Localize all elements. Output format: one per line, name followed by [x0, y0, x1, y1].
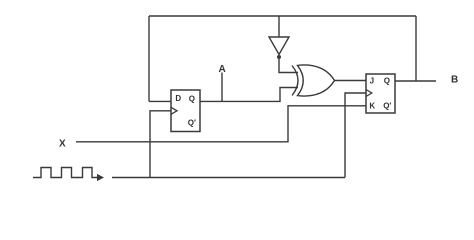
wire clock bus	[112, 177, 345, 179]
inverter triangle	[269, 37, 289, 55]
svg-text:J: J	[370, 77, 374, 86]
wire XOR output to J input	[334, 80, 366, 82]
svg-text:X: X	[59, 138, 66, 149]
wire top feedback horizontal	[149, 15, 416, 17]
svg-text:A: A	[219, 64, 226, 75]
wire left feedback vertical down to D input	[148, 16, 150, 101]
D flip-flop U1 box	[171, 90, 200, 132]
wire K input feedback from node X	[76, 106, 366, 142]
wire top rail down to inverter	[278, 16, 280, 37]
wire D-FF Q output to XOR lower input	[200, 88, 298, 102]
wire JK clock to clock bus	[345, 93, 366, 178]
XOR extra input arc	[292, 66, 298, 96]
node A vertical stub	[221, 73, 223, 102]
svg-text:B: B	[451, 74, 458, 85]
wire JK Q output to node B	[395, 80, 436, 82]
svg-text:Q′: Q′	[188, 118, 196, 127]
svg-text:K: K	[369, 101, 375, 110]
clock waveform square wave	[33, 168, 98, 178]
wire inverter output to XOR upper input	[279, 59, 298, 73]
svg-text:Q′: Q′	[383, 101, 391, 110]
wire into D input	[149, 100, 171, 102]
inverter output dot	[277, 55, 281, 59]
D flip-flop clock wedge	[171, 107, 177, 114]
svg-text:D: D	[175, 94, 181, 103]
JK flip-flop U2 box	[366, 74, 395, 113]
JK flip-flop clock wedge	[366, 90, 372, 97]
wire feedback vertical from node B line up	[415, 16, 417, 81]
wire D flip-flop clock to clock bus	[150, 111, 171, 178]
svg-text:Q: Q	[189, 94, 195, 103]
XOR gate	[292, 65, 335, 96]
clock waveform arrowhead	[97, 174, 104, 181]
svg-text:Q: Q	[384, 77, 390, 86]
XOR gate body	[298, 65, 335, 96]
